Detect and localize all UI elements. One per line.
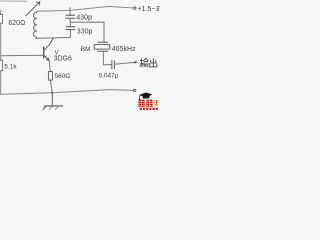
wire tank bottom — [36, 37, 70, 38]
svg-text:620Ω: 620Ω — [8, 20, 25, 27]
wire cropped top-left — [0, 0, 27, 2]
terminal +1.5V supply — [134, 7, 136, 9]
emitter arrowhead — [46, 58, 49, 61]
junction dot — [51, 92, 53, 94]
wire base — [1, 54, 44, 57]
svg-text:3DG6: 3DG6 — [54, 55, 72, 62]
wire to output arrow — [115, 62, 135, 64]
watermark red characters — [138, 100, 152, 107]
label output (Chinese characters drawn as strokes) — [140, 58, 157, 67]
collector — [44, 38, 53, 50]
svg-text:BM: BM — [81, 46, 91, 53]
svg-text:+1.5~3V: +1.5~3V — [138, 6, 160, 13]
resistor R3 560 — [48, 72, 52, 81]
inductor L1 adjustable coil — [33, 11, 36, 38]
watermark orange seal — [154, 100, 158, 106]
char 输 — [140, 59, 143, 61]
capacitor C2 330p — [66, 22, 75, 37]
transistor V 3DG6 — [44, 38, 54, 61]
watermark logo: graduation cap — [139, 93, 153, 101]
wire cap junction to crystal — [70, 22, 104, 42]
resistor R2 5.1k — [0, 60, 3, 70]
svg-text:0.047μ: 0.047μ — [99, 73, 119, 80]
crystal BM 465kHz — [94, 42, 110, 51]
char 出 — [152, 58, 154, 66]
wire crystal to output cap — [103, 51, 111, 65]
output arrowhead — [134, 61, 138, 64]
emitter — [44, 55, 49, 61]
arrow adjustable core — [26, 2, 40, 16]
svg-text:330p: 330p — [77, 29, 93, 36]
svg-text:465kHz: 465kHz — [112, 46, 136, 53]
watermark small red caption — [140, 108, 158, 110]
base bar — [43, 47, 45, 58]
wire bias line — [0, 23, 2, 60]
svg-text:560Ω: 560Ω — [55, 73, 71, 80]
wire R3 to ground rail — [50, 80, 52, 93]
wire bottom rail — [1, 90, 134, 95]
svg-text:430p: 430p — [76, 14, 92, 21]
capacitor C1 430p — [66, 8, 75, 22]
ground — [43, 93, 63, 110]
wire top rail — [37, 6, 134, 11]
terminal bottom — [133, 89, 135, 91]
svg-text:5.1k: 5.1k — [4, 63, 17, 70]
wire emitter to R3 — [48, 61, 51, 72]
capacitor C3 0.047u coupling — [112, 61, 115, 69]
wire R2 to bottom rail — [0, 71, 2, 94]
resistor R1 620 top bias — [0, 10, 2, 14]
